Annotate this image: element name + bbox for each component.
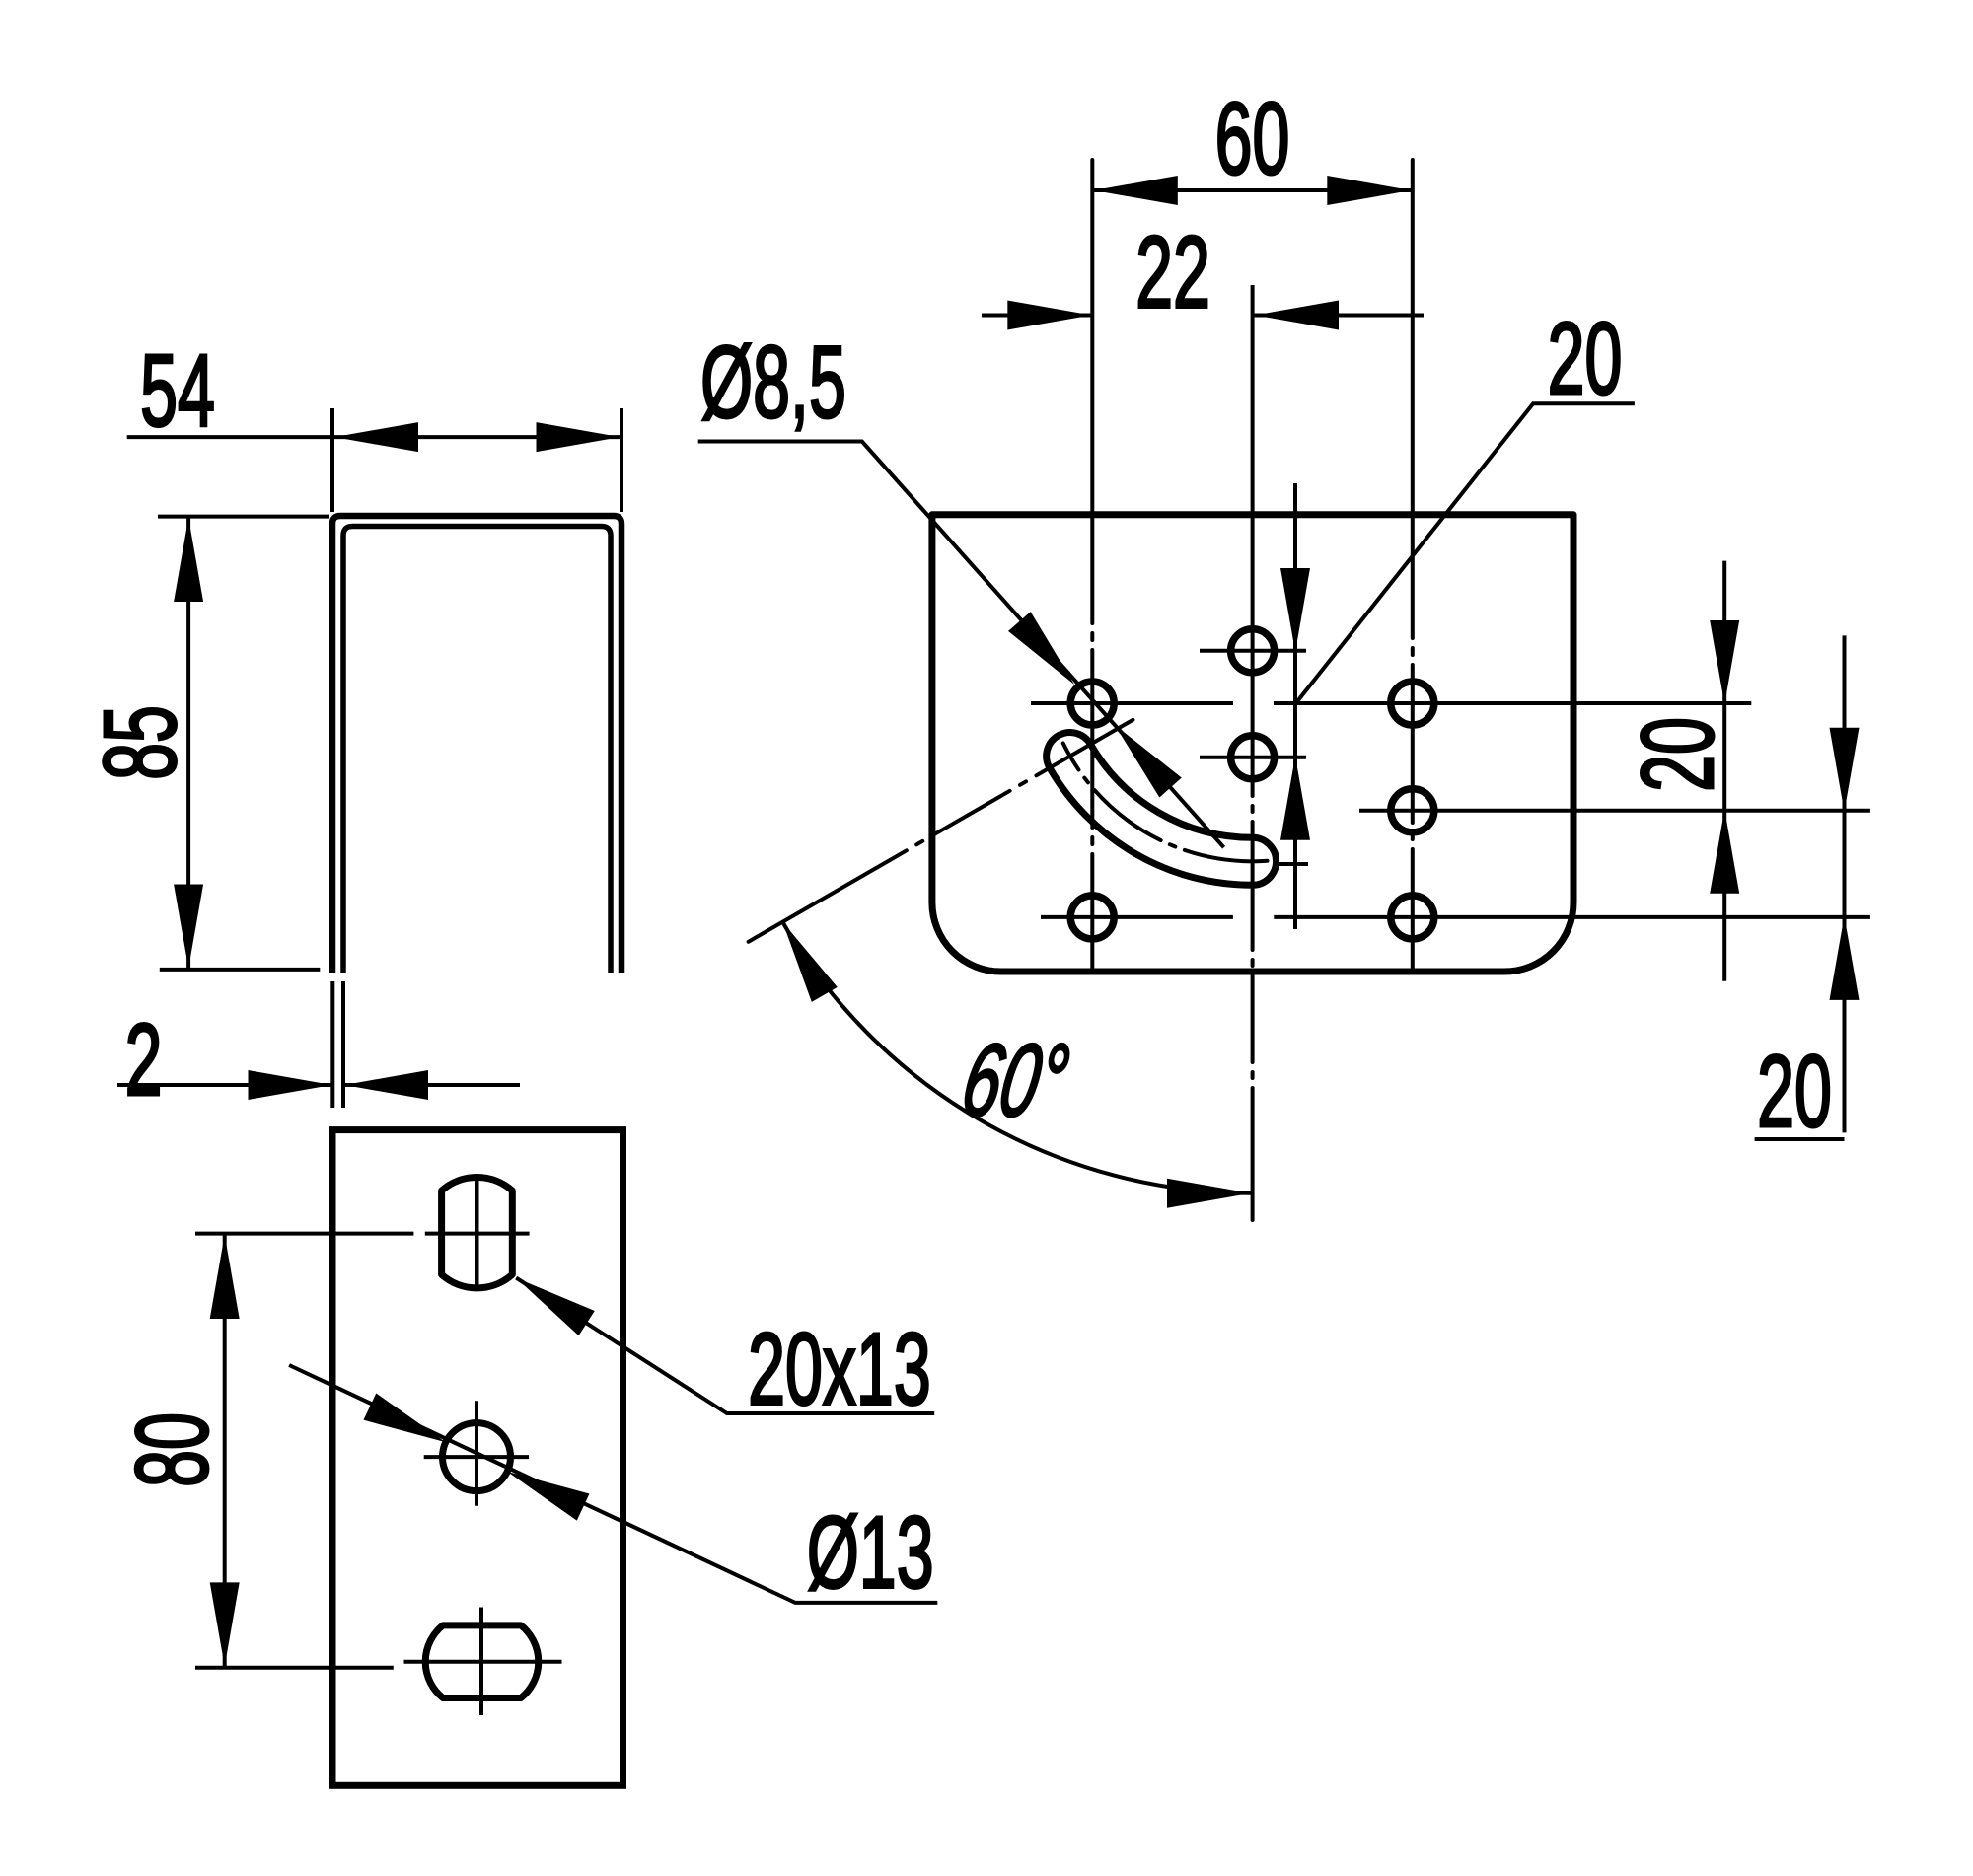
dim 60 dimension line xyxy=(1092,188,1413,192)
dim 22 arrow left outside xyxy=(1007,301,1091,330)
curved slot outline xyxy=(1047,733,1277,886)
dim A-C arrow top xyxy=(1280,568,1310,652)
dim 60 arrow left xyxy=(1094,176,1178,205)
left column centre line xyxy=(1090,160,1094,968)
svg-text:20: 20 xyxy=(1619,717,1734,792)
hole B right xyxy=(1391,682,1434,725)
dim 60 arrow right xyxy=(1327,176,1411,205)
dim 85 arrow bottom xyxy=(174,885,203,969)
top slot horizontal tick xyxy=(425,1232,530,1236)
dim 85 extension line bottom xyxy=(160,968,320,972)
dim A-C dimension line xyxy=(1293,483,1297,929)
U-channel inner profile xyxy=(343,527,611,974)
row C tick xyxy=(1200,756,1306,759)
slot 20x13 bottom (horizontal) xyxy=(425,1625,539,1698)
svg-text:20: 20 xyxy=(1757,1033,1832,1148)
dim 85 dimension line xyxy=(186,517,190,970)
label D8,5 arrow upper xyxy=(1008,612,1085,694)
dim D-E label underline xyxy=(1755,1137,1845,1141)
svg-text:20: 20 xyxy=(1548,300,1623,415)
dim 54 extension line right xyxy=(620,408,623,512)
dim 2 dimension line left part xyxy=(117,1083,332,1087)
row D line xyxy=(1359,809,1870,813)
dim D-E arrow top xyxy=(1830,728,1860,812)
label 20x13 leader xyxy=(516,1278,934,1413)
dim 2 dimension line right part xyxy=(344,1083,521,1087)
dim 2 arrow left xyxy=(249,1070,332,1100)
dim D-E dimension line xyxy=(1843,635,1847,1132)
dim 85 arrow top xyxy=(174,518,203,602)
middle column centre line upper xyxy=(1251,285,1255,631)
svg-text:60°: 60° xyxy=(955,1023,1076,1137)
hole D right xyxy=(1391,789,1434,832)
middle column centre line lower xyxy=(1251,631,1255,1220)
svg-text:80: 80 xyxy=(113,1412,229,1487)
row A tick xyxy=(1200,649,1306,653)
60 deg angle arc xyxy=(782,922,1252,1193)
label D8,5 leader xyxy=(698,442,1224,848)
label D13 arrow upper xyxy=(364,1394,453,1456)
dim 2 extension line left xyxy=(330,981,334,1108)
dim 54 arrow left xyxy=(334,422,418,452)
hole D13 xyxy=(443,1423,511,1491)
dim 80 arrow bottom xyxy=(210,1582,240,1666)
svg-text:22: 22 xyxy=(1135,214,1210,329)
60 deg arc arrow lower xyxy=(1167,1179,1251,1208)
svg-text:54: 54 xyxy=(140,332,215,448)
dim 22 arrow right outside xyxy=(1255,301,1339,330)
svg-text:60: 60 xyxy=(1215,80,1290,195)
hole E right xyxy=(1391,896,1434,939)
curved slot centre arc (dash-dot) xyxy=(1063,743,1268,861)
row E line right xyxy=(1274,915,1870,919)
dim 54 extension line left xyxy=(330,408,334,512)
svg-text:20x13: 20x13 xyxy=(748,1311,931,1426)
dim 54 dimension line xyxy=(127,435,623,439)
bottom slot vertical tick xyxy=(479,1608,483,1716)
dim 80 dimension line xyxy=(223,1234,227,1668)
top slot vertical tick xyxy=(475,1181,479,1286)
hole E left xyxy=(1070,896,1114,939)
dim B-D arrow bottom xyxy=(1710,810,1739,894)
dim 80 arrow top xyxy=(210,1235,240,1319)
hole C center xyxy=(1231,736,1275,779)
60 deg arc arrow upper xyxy=(769,914,837,1002)
U-channel outer profile xyxy=(332,516,621,973)
dim 85 extension line top xyxy=(158,515,329,519)
D13 horizontal tick xyxy=(424,1455,529,1459)
hole A top-center xyxy=(1231,629,1275,673)
dim D-E arrow bottom xyxy=(1830,916,1860,1000)
dim 80 extension line bottom xyxy=(195,1666,394,1670)
svg-text:85: 85 xyxy=(82,705,197,780)
row E line left xyxy=(1041,915,1233,919)
D13 vertical tick xyxy=(475,1401,478,1505)
dim B-D dimension line xyxy=(1722,561,1726,981)
slot lower cap tick xyxy=(1279,862,1308,866)
label D13 arrow lower xyxy=(501,1458,590,1520)
slot 20x13 top (vertical) xyxy=(442,1177,513,1287)
dim 2 extension line right xyxy=(341,981,345,1108)
row B line right part xyxy=(1274,701,1751,705)
label 20 top leader xyxy=(1296,403,1635,702)
hole B left xyxy=(1070,682,1114,725)
right column centre line xyxy=(1411,160,1415,968)
dim 22 dimension line left part xyxy=(982,314,1092,318)
dim 80 extension line top xyxy=(195,1232,413,1236)
dim 2 arrow right xyxy=(344,1070,428,1100)
dim 54 arrow right xyxy=(537,422,621,452)
label D13 leader xyxy=(289,1365,937,1603)
dim A-C arrow bottom xyxy=(1280,757,1310,840)
svg-text:Ø8,5: Ø8,5 xyxy=(700,324,846,439)
label 20x13 leader arrow xyxy=(508,1265,595,1335)
svg-text:2: 2 xyxy=(125,1001,163,1117)
plate outline xyxy=(332,1130,623,1786)
dim 22 dimension line right part xyxy=(1253,314,1424,318)
row B line xyxy=(1031,701,1233,705)
svg-text:Ø13: Ø13 xyxy=(807,1494,934,1610)
plate outline xyxy=(932,515,1573,972)
label D8,5 arrow lower xyxy=(1104,715,1182,797)
60 deg radial centre line xyxy=(749,720,1133,942)
bottom slot horizontal tick xyxy=(404,1660,562,1664)
dim B-D arrow top xyxy=(1710,620,1739,704)
